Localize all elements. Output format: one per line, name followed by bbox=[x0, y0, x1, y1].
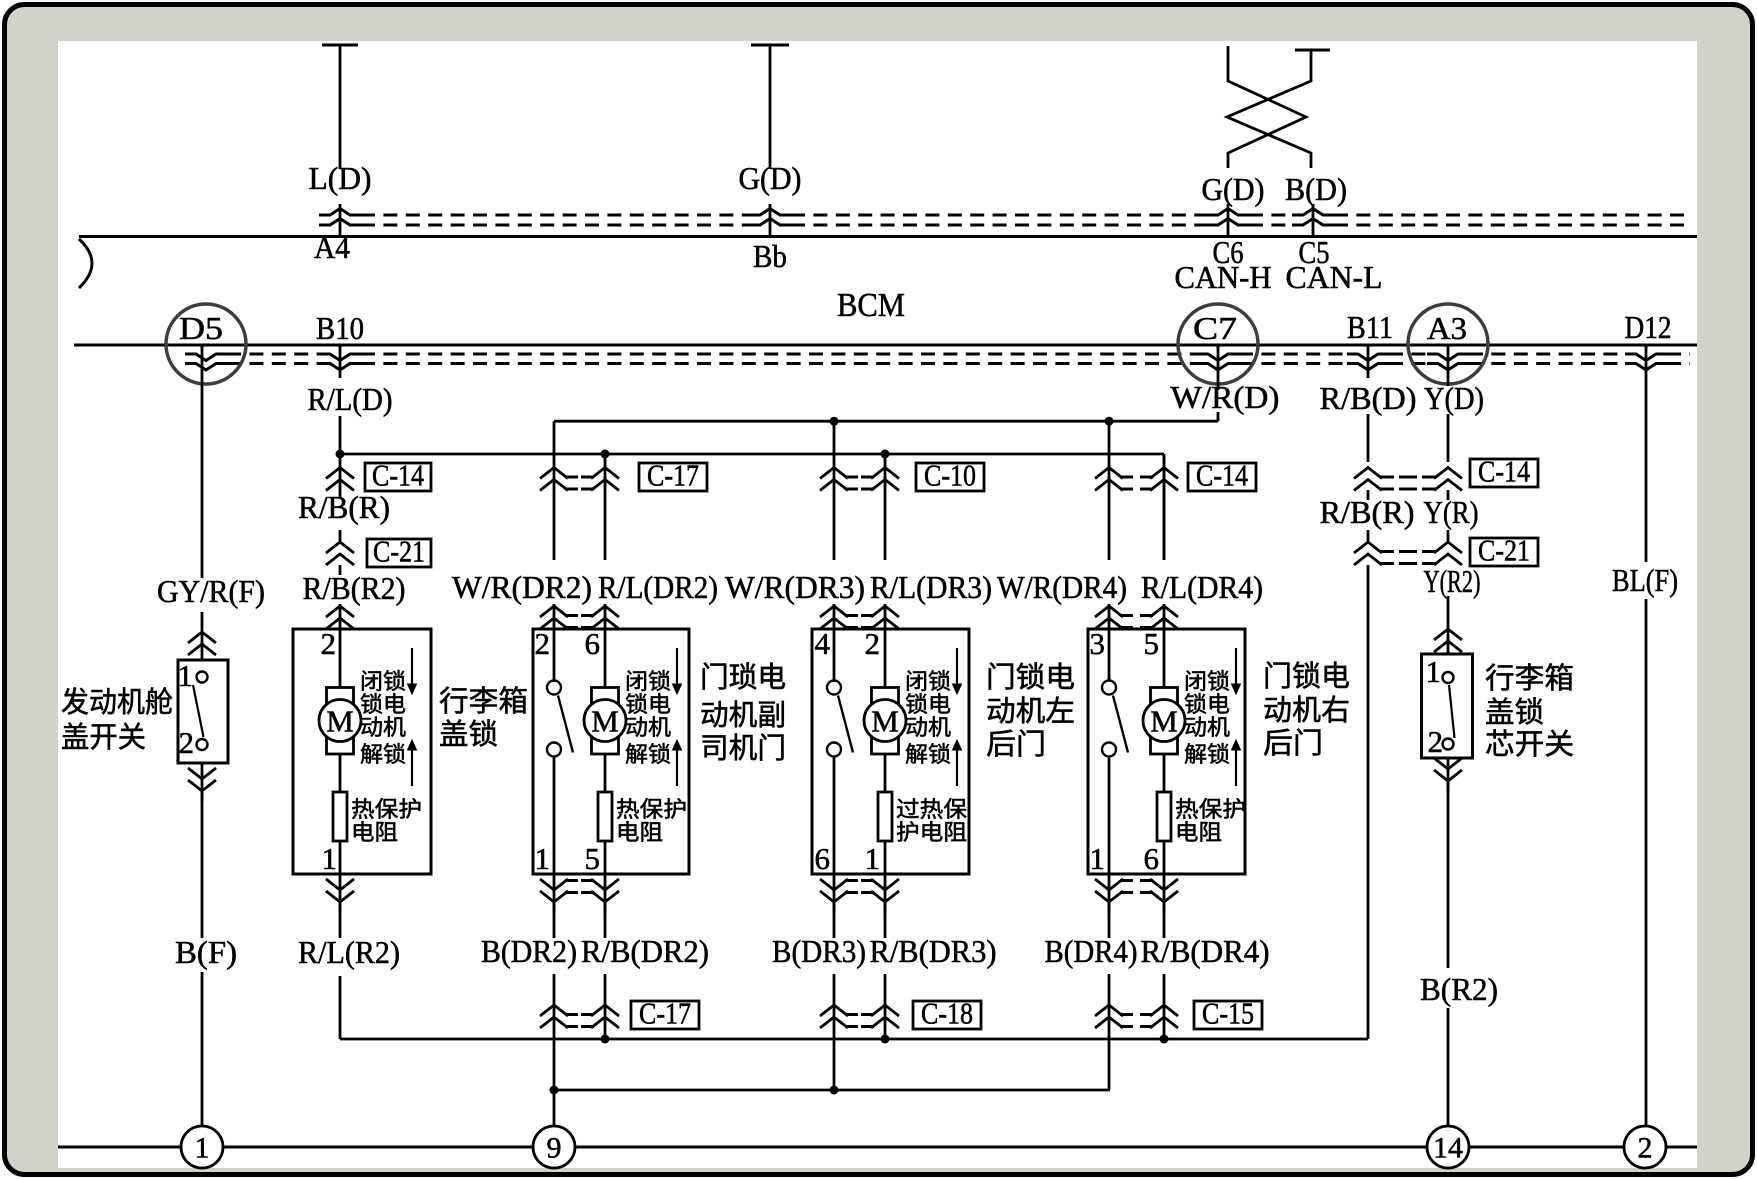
svg-text:R/B(R): R/B(R) bbox=[1320, 494, 1415, 530]
svg-text:M: M bbox=[326, 704, 354, 739]
svg-text:护电阻: 护电阻 bbox=[896, 820, 967, 845]
svg-text:解锁: 解锁 bbox=[1184, 742, 1230, 767]
svg-text:BL(F): BL(F) bbox=[1612, 562, 1678, 598]
svg-text:Y(R): Y(R) bbox=[1424, 494, 1479, 530]
svg-text:W/R(D): W/R(D) bbox=[1171, 379, 1280, 415]
svg-text:热保护: 热保护 bbox=[1175, 797, 1246, 822]
svg-text:锁电: 锁电 bbox=[905, 692, 951, 717]
svg-text:B(D): B(D) bbox=[1285, 171, 1347, 207]
svg-text:CAN-L: CAN-L bbox=[1286, 259, 1383, 295]
svg-text:闭锁: 闭锁 bbox=[905, 669, 951, 694]
svg-text:C-14: C-14 bbox=[1478, 454, 1530, 489]
svg-text:4: 4 bbox=[815, 626, 831, 661]
svg-text:C-17: C-17 bbox=[639, 996, 691, 1031]
svg-text:B(R2): B(R2) bbox=[1420, 971, 1498, 1007]
svg-text:M: M bbox=[871, 704, 899, 739]
svg-text:1: 1 bbox=[195, 1132, 210, 1165]
svg-text:14: 14 bbox=[1433, 1132, 1463, 1165]
svg-text:盖锁: 盖锁 bbox=[439, 718, 498, 751]
svg-text:动机: 动机 bbox=[625, 715, 671, 740]
svg-text:动机右: 动机右 bbox=[1263, 694, 1350, 727]
svg-text:G(D): G(D) bbox=[1202, 171, 1265, 207]
svg-text:2: 2 bbox=[179, 725, 195, 760]
svg-text:6: 6 bbox=[815, 841, 831, 876]
svg-text:R/B(R): R/B(R) bbox=[298, 489, 390, 525]
svg-text:Y(D): Y(D) bbox=[1424, 380, 1484, 416]
svg-text:过热保: 过热保 bbox=[896, 797, 967, 822]
svg-text:1: 1 bbox=[535, 841, 551, 876]
svg-text:B11: B11 bbox=[1347, 309, 1393, 345]
svg-text:R/B(DR3): R/B(DR3) bbox=[870, 933, 997, 969]
svg-text:锁电: 锁电 bbox=[360, 692, 406, 717]
svg-text:1: 1 bbox=[1426, 654, 1442, 689]
svg-text:行李箱: 行李箱 bbox=[439, 685, 528, 718]
svg-text:电阻: 电阻 bbox=[1175, 820, 1222, 845]
svg-text:R/L(DR4): R/L(DR4) bbox=[1141, 569, 1263, 605]
svg-text:1: 1 bbox=[865, 841, 881, 876]
svg-text:门锁电: 门锁电 bbox=[1263, 660, 1350, 693]
svg-text:后门: 后门 bbox=[1263, 727, 1323, 760]
svg-text:动机副: 动机副 bbox=[700, 699, 786, 732]
svg-text:动机左: 动机左 bbox=[986, 695, 1075, 728]
svg-text:闭锁: 闭锁 bbox=[1184, 669, 1230, 694]
svg-text:锁电: 锁电 bbox=[625, 692, 671, 717]
svg-text:C-10: C-10 bbox=[924, 458, 976, 493]
svg-text:电阻: 电阻 bbox=[351, 820, 398, 845]
svg-text:5: 5 bbox=[1144, 626, 1160, 661]
svg-text:C-14: C-14 bbox=[1196, 458, 1248, 493]
svg-text:2: 2 bbox=[1638, 1132, 1653, 1165]
svg-text:M: M bbox=[1150, 704, 1178, 739]
svg-text:行李箱: 行李箱 bbox=[1485, 662, 1574, 695]
svg-text:发动机舱: 发动机舱 bbox=[61, 686, 173, 719]
svg-text:1: 1 bbox=[1090, 841, 1106, 876]
svg-text:B(F): B(F) bbox=[175, 934, 237, 970]
svg-text:解锁: 解锁 bbox=[625, 742, 671, 767]
svg-text:解锁: 解锁 bbox=[360, 742, 406, 767]
svg-text:电阻: 电阻 bbox=[616, 820, 663, 845]
svg-text:C-18: C-18 bbox=[921, 996, 973, 1031]
svg-text:C-21: C-21 bbox=[373, 534, 425, 569]
svg-text:D12: D12 bbox=[1625, 309, 1672, 345]
svg-text:A4: A4 bbox=[314, 229, 350, 265]
svg-text:门琐电: 门琐电 bbox=[700, 661, 786, 694]
svg-text:1: 1 bbox=[178, 658, 194, 693]
svg-text:闭锁: 闭锁 bbox=[360, 669, 406, 694]
svg-text:动机: 动机 bbox=[905, 715, 951, 740]
svg-text:2: 2 bbox=[321, 626, 337, 661]
svg-text:9: 9 bbox=[547, 1132, 562, 1165]
svg-text:2: 2 bbox=[1428, 724, 1444, 759]
svg-text:W/R(DR4): W/R(DR4) bbox=[997, 569, 1127, 605]
svg-text:R/L(DR2): R/L(DR2) bbox=[598, 569, 718, 605]
svg-text:W/R(DR2): W/R(DR2) bbox=[452, 569, 592, 605]
svg-text:动机: 动机 bbox=[360, 715, 406, 740]
svg-text:C7: C7 bbox=[1193, 310, 1237, 346]
svg-text:M: M bbox=[591, 704, 619, 739]
svg-text:R/B(D): R/B(D) bbox=[1320, 380, 1417, 416]
svg-text:R/L(R2): R/L(R2) bbox=[298, 934, 400, 970]
svg-text:R/L(D): R/L(D) bbox=[308, 381, 393, 417]
svg-text:R/B(DR2): R/B(DR2) bbox=[581, 933, 709, 969]
svg-text:C-21: C-21 bbox=[1478, 533, 1530, 568]
svg-text:R/L(DR3): R/L(DR3) bbox=[870, 569, 992, 605]
svg-text:Bb: Bb bbox=[753, 238, 787, 274]
svg-text:1: 1 bbox=[322, 841, 338, 876]
svg-text:BCM: BCM bbox=[837, 287, 905, 324]
svg-text:动机: 动机 bbox=[1184, 715, 1230, 740]
svg-text:2: 2 bbox=[535, 626, 551, 661]
svg-text:C-15: C-15 bbox=[1202, 996, 1254, 1031]
svg-text:Y(R2): Y(R2) bbox=[1424, 563, 1481, 599]
svg-text:3: 3 bbox=[1090, 626, 1106, 661]
svg-text:C-17: C-17 bbox=[647, 458, 699, 493]
svg-text:后门: 后门 bbox=[986, 728, 1046, 761]
svg-text:盖锁: 盖锁 bbox=[1485, 696, 1544, 729]
svg-text:R/B(R2): R/B(R2) bbox=[303, 570, 406, 606]
svg-text:W/R(DR3): W/R(DR3) bbox=[725, 569, 865, 605]
svg-text:GY/R(F): GY/R(F) bbox=[157, 573, 265, 609]
svg-text:A3: A3 bbox=[1427, 310, 1467, 346]
svg-text:B10: B10 bbox=[316, 310, 364, 346]
svg-text:门锁电: 门锁电 bbox=[986, 661, 1075, 694]
svg-text:C-14: C-14 bbox=[372, 458, 424, 493]
svg-text:L(D): L(D) bbox=[309, 160, 372, 196]
svg-text:B(DR2): B(DR2) bbox=[481, 933, 577, 969]
svg-text:CAN-H: CAN-H bbox=[1175, 259, 1272, 295]
svg-text:B(DR4): B(DR4) bbox=[1045, 933, 1138, 969]
svg-text:5: 5 bbox=[585, 841, 601, 876]
svg-text:司机门: 司机门 bbox=[700, 732, 786, 765]
svg-text:2: 2 bbox=[865, 626, 881, 661]
svg-text:R/B(DR4): R/B(DR4) bbox=[1141, 933, 1270, 969]
svg-text:G(D): G(D) bbox=[739, 160, 802, 196]
svg-text:热保护: 热保护 bbox=[351, 797, 422, 822]
svg-text:解锁: 解锁 bbox=[905, 742, 951, 767]
svg-text:盖开关: 盖开关 bbox=[61, 721, 146, 754]
svg-text:B(DR3): B(DR3) bbox=[772, 933, 866, 969]
svg-text:闭锁: 闭锁 bbox=[625, 669, 671, 694]
svg-text:热保护: 热保护 bbox=[616, 797, 687, 822]
svg-text:6: 6 bbox=[585, 626, 601, 661]
svg-text:芯开关: 芯开关 bbox=[1485, 728, 1574, 761]
svg-text:D5: D5 bbox=[179, 310, 223, 346]
svg-text:6: 6 bbox=[1144, 841, 1160, 876]
svg-text:锁电: 锁电 bbox=[1184, 692, 1230, 717]
